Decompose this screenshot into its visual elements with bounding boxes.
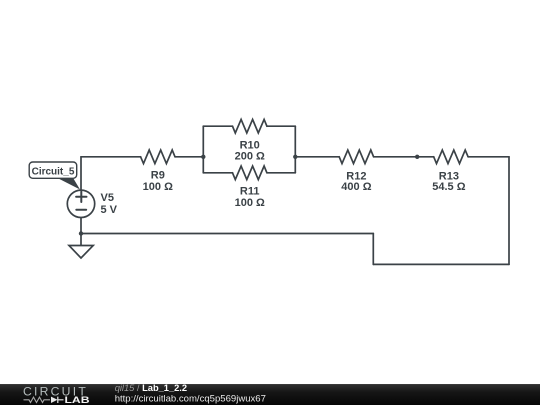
svg-text:LAB: LAB	[65, 395, 90, 405]
resistor R13	[434, 150, 468, 164]
footer bar	[0, 384, 540, 405]
wire R13 to right corner	[468, 156, 509, 158]
wire bottom horizontal	[373, 263, 509, 265]
svg-text:http://circuitlab.com/cq5p569j: http://circuitlab.com/cq5p569jwux67	[115, 394, 266, 405]
label R9	[143, 170, 173, 193]
wire parallel block to R12	[295, 156, 339, 158]
wire return to V5	[81, 233, 373, 235]
wire R9 to parallel block	[175, 156, 203, 158]
wire top horizontal to R9	[81, 156, 141, 158]
resistor R10	[233, 119, 267, 133]
resistor R9	[141, 150, 175, 164]
label V5 value	[101, 192, 118, 216]
wire top branch right lead	[267, 125, 295, 127]
label R12	[341, 171, 371, 193]
ground	[69, 246, 93, 259]
svg-text:qil15 / Lab_1_2.2: qil15 / Lab_1_2.2	[115, 383, 187, 393]
wire V5 top vertical	[80, 157, 82, 190]
label R10	[235, 139, 265, 162]
node junction at parallel block left	[201, 155, 205, 159]
wire bottom branch left lead	[203, 172, 232, 174]
label R11	[235, 185, 265, 209]
label R13	[432, 171, 465, 193]
node junction between R12 and R13	[415, 155, 419, 159]
wire right vertical	[508, 157, 510, 265]
wire left bar of parallel block	[202, 126, 204, 173]
node junction at parallel block right	[293, 155, 297, 159]
logo diode	[51, 397, 64, 403]
voltage source V5	[67, 190, 94, 217]
wire R12 to R13	[374, 156, 434, 158]
logo resistor squiggle	[24, 397, 51, 402]
wire right bar of parallel block	[294, 126, 296, 173]
wire step vertical	[372, 234, 374, 265]
wire top branch left lead	[203, 125, 232, 127]
resistor R12	[339, 150, 373, 164]
wire bottom branch right lead	[267, 172, 295, 174]
node junction at ground	[79, 231, 83, 235]
wire V5 bottom vertical	[80, 218, 82, 234]
resistor R11	[233, 166, 267, 180]
node label balloon Circuit_5	[29, 162, 80, 190]
wire ground stub	[80, 234, 82, 246]
